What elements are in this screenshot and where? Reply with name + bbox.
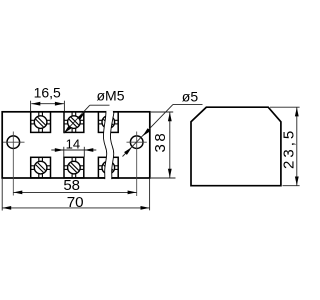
mounting hole right xyxy=(130,136,143,149)
svg-text:70: 70 xyxy=(67,194,84,211)
leader o5 xyxy=(123,104,174,156)
dim 14 xyxy=(51,147,96,157)
terminal T2 top square xyxy=(64,112,84,133)
hole left centerlines xyxy=(3,141,25,143)
svg-text:16,5: 16,5 xyxy=(34,85,61,101)
svg-text:ø5: ø5 xyxy=(182,88,199,104)
dim 23,5 xyxy=(270,107,300,186)
svg-text:23,5: 23,5 xyxy=(281,128,298,169)
dim 38 xyxy=(151,112,176,178)
break wavy line right xyxy=(110,111,114,179)
terminal T4 bottom square xyxy=(31,157,51,178)
mounting hole left xyxy=(7,136,20,149)
break band white-out xyxy=(103,111,113,180)
svg-text:øM5: øM5 xyxy=(97,88,125,104)
body outline front view xyxy=(2,112,150,178)
terminal T1 top square xyxy=(31,112,51,133)
dim 58 xyxy=(13,191,136,193)
svg-text:38: 38 xyxy=(152,131,169,153)
svg-text:14: 14 xyxy=(66,136,80,151)
side view outline xyxy=(191,107,281,186)
break wavy line left xyxy=(103,111,106,179)
hole right centerlines xyxy=(127,141,147,143)
terminal T3 top square (broken) xyxy=(98,112,118,133)
svg-text:58: 58 xyxy=(63,177,80,194)
terminal T6 bottom square (broken) xyxy=(98,157,118,178)
leader oM5 xyxy=(64,105,90,133)
terminal T5 bottom square xyxy=(64,157,84,178)
dim 70 xyxy=(2,179,149,211)
dim 16,5 xyxy=(31,101,65,112)
